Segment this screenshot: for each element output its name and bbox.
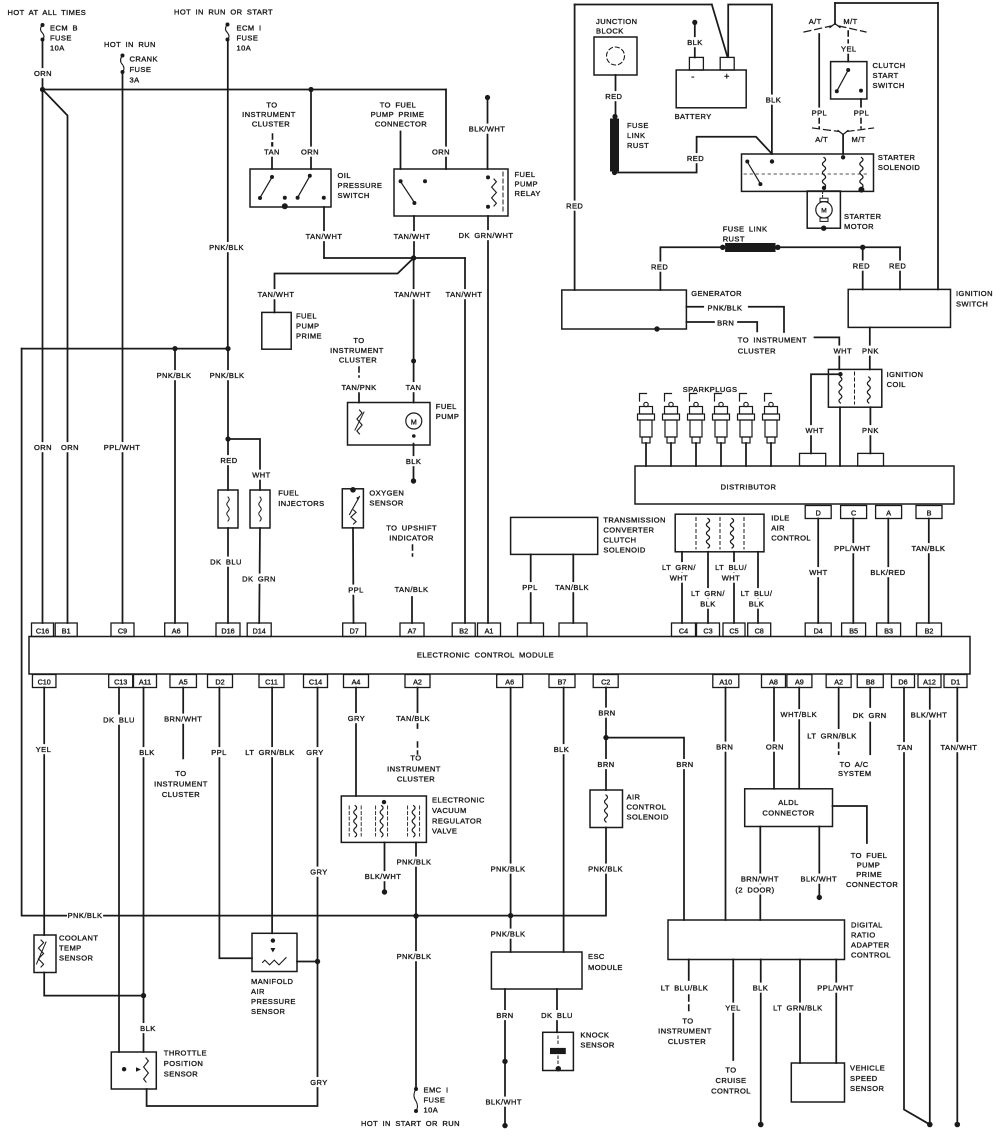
svg-text:RED: RED [687,154,704,163]
svg-text:OIL: OIL [338,171,351,180]
svg-text:ECM I: ECM I [237,24,262,33]
svg-text:CLUSTER: CLUSTER [397,775,435,784]
svg-text:C: C [851,508,856,517]
svg-text:ORN: ORN [432,148,450,157]
svg-text:A8: A8 [769,677,778,686]
svg-text:A2: A2 [413,677,422,686]
svg-text:DK GRN: DK GRN [853,711,887,720]
svg-text:TO: TO [682,1017,693,1026]
svg-text:SPARKPLUGS: SPARKPLUGS [683,385,738,394]
svg-text:BLK/WHT: BLK/WHT [469,125,506,134]
svg-text:SENSOR: SENSOR [59,954,94,963]
svg-text:BLK: BLK [139,748,155,757]
svg-text:C9: C9 [118,626,127,635]
svg-text:DK BLU: DK BLU [541,1011,573,1020]
svg-text:YEL: YEL [841,45,857,54]
svg-text:MOTOR: MOTOR [844,222,874,231]
svg-text:A2: A2 [834,677,843,686]
svg-text:FUSE: FUSE [50,34,72,43]
svg-text:WHT: WHT [252,471,270,480]
svg-text:STARTER: STARTER [878,153,916,162]
svg-text:TO: TO [266,101,277,110]
svg-text:PNK/BLK: PNK/BLK [157,371,192,380]
svg-text:CLUSTER: CLUSTER [162,790,200,799]
svg-text:COIL: COIL [887,380,906,389]
svg-text:TAN/WHT: TAN/WHT [941,743,978,752]
svg-text:RED: RED [566,202,583,211]
svg-text:D1: D1 [951,677,960,686]
svg-text:PRIME: PRIME [296,332,322,341]
svg-text:PNK/BLK: PNK/BLK [397,952,432,961]
svg-text:HOT IN RUN: HOT IN RUN [104,40,156,49]
svg-text:PUMP: PUMP [296,322,319,331]
svg-text:A11: A11 [139,677,151,686]
svg-text:VACUUM: VACUUM [432,806,467,815]
svg-text:TO FUEL: TO FUEL [851,851,888,860]
svg-text:BLK: BLK [700,600,716,609]
svg-text:DISTRIBUTOR: DISTRIBUTOR [721,483,777,492]
svg-text:ORN: ORN [34,443,52,452]
svg-text:CONVERTER: CONVERTER [603,526,654,535]
svg-text:INSTRUMENT: INSTRUMENT [154,780,208,789]
svg-text:KNOCK: KNOCK [580,1030,609,1039]
svg-text:LT GRN/BLK: LT GRN/BLK [773,1004,822,1013]
svg-text:-: - [691,72,695,83]
svg-text:TAN/WHT: TAN/WHT [394,290,431,299]
svg-text:WHT/BLK: WHT/BLK [781,710,818,719]
svg-text:10A: 10A [237,44,252,53]
svg-text:CLUSTER: CLUSTER [668,1037,706,1046]
svg-text:A10: A10 [719,677,732,686]
svg-text:BRN: BRN [676,760,693,769]
svg-text:RELAY: RELAY [515,189,541,198]
svg-text:TO INSTRUMENT: TO INSTRUMENT [738,336,807,345]
svg-text:HOT IN START OR RUN: HOT IN START OR RUN [361,1119,460,1128]
svg-text:TAN/WHT: TAN/WHT [258,290,295,299]
svg-text:PNK/BLK: PNK/BLK [397,858,432,867]
svg-text:GRY: GRY [348,714,365,723]
svg-text:ALDL: ALDL [778,798,799,807]
svg-text:M: M [411,419,417,426]
svg-text:TAN: TAN [264,148,280,157]
svg-text:BATTERY: BATTERY [675,112,712,121]
svg-text:REGULATOR: REGULATOR [432,817,482,826]
svg-text:GENERATOR: GENERATOR [691,289,742,298]
svg-text:PRESSURE: PRESSURE [338,181,383,190]
svg-text:+: + [724,72,730,82]
svg-text:RED: RED [889,262,906,271]
svg-text:A4: A4 [352,677,361,686]
svg-text:WHT: WHT [834,347,852,356]
svg-text:LINK: LINK [627,131,645,140]
svg-text:M/T: M/T [843,17,857,26]
svg-text:FUSE: FUSE [424,1096,446,1105]
svg-text:TO: TO [725,1066,736,1075]
svg-text:FUEL: FUEL [515,170,536,179]
svg-text:BLK: BLK [766,96,782,105]
svg-text:A9: A9 [795,677,804,686]
svg-text:TO FUEL: TO FUEL [380,101,417,110]
svg-text:PRIME: PRIME [856,870,882,879]
svg-text:TAN/BLK: TAN/BLK [396,714,430,723]
svg-text:CLUSTER: CLUSTER [339,356,377,365]
svg-text:BLK: BLK [749,600,765,609]
svg-text:AIR: AIR [251,987,265,996]
svg-text:PPL: PPL [211,748,227,757]
svg-text:HOT IN RUN OR START: HOT IN RUN OR START [174,8,273,17]
svg-text:CRUISE: CRUISE [715,1076,746,1085]
svg-text:PPL: PPL [522,583,538,592]
svg-text:A1: A1 [485,626,494,635]
svg-text:RED: RED [220,456,237,465]
svg-text:RED: RED [651,263,668,272]
svg-text:C8: C8 [755,626,764,635]
svg-text:B1: B1 [62,626,71,635]
svg-text:M/T: M/T [852,135,866,144]
svg-text:BRN: BRN [716,743,733,752]
svg-text:C10: C10 [38,677,51,686]
svg-text:WHT: WHT [809,568,827,577]
svg-text:PNK: PNK [862,347,879,356]
svg-text:TAN/WHT: TAN/WHT [394,232,431,241]
svg-text:A12: A12 [923,677,936,686]
svg-text:C2: C2 [601,677,610,686]
svg-text:PPL: PPL [812,109,828,118]
svg-text:PNK/BLK: PNK/BLK [491,930,526,939]
svg-text:BLK: BLK [687,38,703,47]
svg-text:D14: D14 [253,626,266,635]
svg-text:TAN/WHT: TAN/WHT [446,290,483,299]
svg-text:IGNITION: IGNITION [956,289,993,298]
svg-text:ORN: ORN [61,443,79,452]
svg-text:LT BLU/: LT BLU/ [715,563,747,572]
svg-text:LT GRN/: LT GRN/ [662,563,696,572]
svg-text:ECM B: ECM B [50,24,78,33]
svg-text:RED: RED [853,262,870,271]
svg-text:INSTRUMENT: INSTRUMENT [658,1027,712,1036]
svg-text:FUSE: FUSE [627,121,649,130]
svg-text:A/T: A/T [809,17,822,26]
svg-text:MANIFOLD: MANIFOLD [251,977,293,986]
svg-text:PPL/WHT: PPL/WHT [834,544,871,553]
svg-text:PPL: PPL [854,109,870,118]
svg-text:DIGITAL: DIGITAL [851,921,883,930]
svg-text:ORN: ORN [766,743,784,752]
svg-text:SOLENOID: SOLENOID [878,163,920,172]
svg-text:A: A [886,508,891,517]
svg-text:BLOCK: BLOCK [596,27,624,36]
svg-text:SYSTEM: SYSTEM [838,769,872,778]
svg-text:D: D [816,508,821,517]
svg-text:FUEL: FUEL [278,489,299,498]
svg-text:ELECTRONIC: ELECTRONIC [432,796,485,805]
svg-text:DK BLU: DK BLU [103,716,135,725]
svg-text:BRN: BRN [717,319,734,328]
svg-text:AIR: AIR [627,793,641,802]
svg-text:D2: D2 [215,677,224,686]
svg-text:BRN: BRN [496,1011,513,1020]
svg-text:VEHICLE: VEHICLE [850,1063,885,1072]
svg-text:CONTROL: CONTROL [627,803,667,812]
svg-text:A5: A5 [179,677,188,686]
svg-text:3A: 3A [130,76,140,85]
svg-text:INSTRUMENT: INSTRUMENT [387,765,441,774]
svg-text:DK GRN/WHT: DK GRN/WHT [459,231,514,240]
svg-text:SENSOR: SENSOR [369,499,404,508]
svg-text:TAN/WHT: TAN/WHT [306,232,343,241]
svg-text:SENSOR: SENSOR [251,1007,286,1016]
svg-text:PUMP: PUMP [857,860,880,869]
svg-text:MODULE: MODULE [588,963,623,972]
svg-text:A/T: A/T [815,135,828,144]
svg-text:FUSE: FUSE [130,65,152,74]
svg-text:LT BLU/: LT BLU/ [741,589,773,598]
svg-text:CLUTCH: CLUTCH [603,536,636,545]
svg-text:BRN: BRN [598,709,615,718]
svg-text:CONNECTOR: CONNECTOR [762,809,814,818]
svg-text:BLK: BLK [140,1024,156,1033]
svg-text:SWITCH: SWITCH [956,300,988,309]
svg-text:LT GRN/BLK: LT GRN/BLK [807,732,856,741]
svg-text:PPL/WHT: PPL/WHT [817,984,854,993]
svg-text:PUMP PRIME: PUMP PRIME [371,110,425,119]
svg-text:TAN: TAN [406,383,422,392]
svg-text:TAN/PNK: TAN/PNK [341,383,376,392]
svg-text:STARTER: STARTER [844,212,882,221]
svg-text:INDICATOR: INDICATOR [389,534,434,543]
svg-text:SPEED: SPEED [850,1074,878,1083]
svg-text:RATIO: RATIO [851,931,876,940]
svg-text:THROTTLE: THROTTLE [164,1048,207,1057]
svg-text:C16: C16 [36,626,49,635]
svg-text:GRY: GRY [306,748,323,757]
svg-text:PNK/BLK: PNK/BLK [68,911,103,920]
svg-text:YEL: YEL [36,745,52,754]
svg-text:CLUSTER: CLUSTER [252,120,290,129]
svg-text:C5: C5 [729,626,738,635]
svg-text:CONNECTOR: CONNECTOR [846,880,898,889]
svg-text:SWITCH: SWITCH [338,191,370,200]
svg-text:TEMP: TEMP [59,944,82,953]
svg-text:SOLENOID: SOLENOID [627,813,669,822]
svg-text:A6: A6 [505,677,514,686]
svg-text:FUSE LINK: FUSE LINK [723,225,768,234]
svg-text:BLK/WHT: BLK/WHT [911,711,948,720]
svg-text:TRANSMISSION: TRANSMISSION [603,516,666,525]
svg-text:C11: C11 [265,677,278,686]
svg-text:YEL: YEL [725,1004,741,1013]
svg-text:D4: D4 [814,626,823,635]
svg-text:DK BLU: DK BLU [210,558,242,567]
svg-text:LT GRN/: LT GRN/ [691,589,725,598]
svg-text:OXYGEN: OXYGEN [369,489,404,498]
svg-text:A7: A7 [408,626,417,635]
svg-text:ESC: ESC [588,952,605,961]
svg-text:LT BLU/BLK: LT BLU/BLK [661,984,708,993]
svg-text:SENSOR: SENSOR [580,1041,615,1050]
svg-text:RUST: RUST [723,235,745,244]
svg-text:SWITCH: SWITCH [873,81,905,90]
svg-text:JUNCTION: JUNCTION [596,17,638,26]
svg-text:BLK: BLK [406,457,422,466]
svg-text:10A: 10A [424,1106,439,1115]
svg-text:TAN/BLK: TAN/BLK [395,585,429,594]
svg-text:INSTRUMENT: INSTRUMENT [330,346,384,355]
svg-text:RED: RED [605,92,622,101]
svg-text:PNK/BLK: PNK/BLK [708,304,743,313]
svg-text:PUMP: PUMP [436,412,459,421]
svg-text:CONNECTOR: CONNECTOR [375,120,427,129]
svg-text:PNK/BLK: PNK/BLK [209,243,244,252]
svg-text:INSTRUMENT: INSTRUMENT [242,110,296,119]
svg-text:DK GRN: DK GRN [242,575,276,584]
svg-text:CLUTCH: CLUTCH [873,61,906,70]
svg-text:PNK/BLK: PNK/BLK [588,865,623,874]
svg-text:EMC I: EMC I [424,1086,449,1095]
svg-text:WHT: WHT [805,426,823,435]
svg-text:M: M [821,208,826,215]
svg-text:(2 DOOR): (2 DOOR) [735,885,774,894]
svg-text:VALVE: VALVE [432,827,457,836]
svg-text:CONTROL: CONTROL [771,534,811,543]
svg-text:C3: C3 [703,626,712,635]
svg-text:B: B [927,508,932,517]
svg-text:PUMP: PUMP [515,180,538,189]
svg-text:TO UPSHIFT: TO UPSHIFT [386,524,437,533]
svg-text:BLK/RED: BLK/RED [870,568,905,577]
svg-text:CLUSTER: CLUSTER [738,347,776,356]
svg-text:B2: B2 [925,626,934,635]
svg-text:LT GRN/BLK: LT GRN/BLK [245,748,294,757]
svg-text:B7: B7 [558,677,567,686]
svg-text:SOLENOID: SOLENOID [603,546,645,555]
svg-text:BLK/WHT: BLK/WHT [365,872,402,881]
svg-text:PPL/WHT: PPL/WHT [104,443,141,452]
svg-text:B8: B8 [866,677,875,686]
svg-text:FUEL: FUEL [296,312,317,321]
svg-text:B3: B3 [884,626,893,635]
svg-text:HOT AT ALL TIMES: HOT AT ALL TIMES [8,8,87,17]
svg-text:PRESSURE: PRESSURE [251,997,296,1006]
svg-text:BRN: BRN [597,760,614,769]
svg-text:FUSE: FUSE [237,34,259,43]
svg-text:B2: B2 [459,626,468,635]
svg-text:SENSOR: SENSOR [850,1084,885,1093]
svg-text:CRANK: CRANK [130,55,159,64]
svg-text:A6: A6 [172,626,181,635]
svg-text:TAN/BLK: TAN/BLK [911,544,945,553]
svg-text:B5: B5 [849,626,858,635]
svg-text:PNK: PNK [862,426,879,435]
svg-text:TO: TO [353,336,364,345]
svg-text:D7: D7 [350,626,359,635]
svg-text:START: START [873,71,899,80]
svg-text:TO: TO [410,754,421,763]
svg-text:C4: C4 [679,626,688,635]
svg-text:BLK: BLK [554,745,570,754]
svg-text:D16: D16 [221,626,234,635]
svg-text:ORN: ORN [301,148,319,157]
svg-text:PNK/BLK: PNK/BLK [491,865,526,874]
svg-text:IGNITION: IGNITION [887,370,924,379]
svg-text:WHT: WHT [722,574,740,583]
svg-text:GRY: GRY [310,868,327,877]
svg-text:POSITION: POSITION [164,1059,203,1068]
svg-text:FUEL: FUEL [436,402,457,411]
svg-text:D6: D6 [898,677,907,686]
svg-text:ELECTRONIC CONTROL MODULE: ELECTRONIC CONTROL MODULE [417,651,554,660]
svg-text:WHT: WHT [670,574,688,583]
svg-text:BLK/WHT: BLK/WHT [801,875,838,884]
svg-text:BLK: BLK [753,984,769,993]
svg-text:BRN/WHT: BRN/WHT [164,715,202,724]
svg-text:TAN: TAN [897,743,913,752]
svg-text:TO A/C: TO A/C [840,760,869,769]
svg-text:CONTROL: CONTROL [711,1087,751,1096]
svg-text:PNK/BLK: PNK/BLK [210,371,245,380]
svg-text:RUST: RUST [627,141,649,150]
svg-text:TO: TO [175,769,186,778]
svg-text:10A: 10A [50,44,65,53]
svg-text:AIR: AIR [771,524,785,533]
svg-text:TAN/BLK: TAN/BLK [555,583,589,592]
svg-text:INJECTORS: INJECTORS [278,499,324,508]
svg-text:ORN: ORN [34,69,52,78]
svg-text:SENSOR: SENSOR [164,1069,199,1078]
svg-text:COOLANT: COOLANT [59,934,98,943]
svg-text:IDLE: IDLE [771,514,789,523]
svg-text:GRY: GRY [310,1078,327,1087]
svg-text:BLK/WHT: BLK/WHT [485,1098,522,1107]
svg-text:ADAPTER: ADAPTER [851,941,890,950]
svg-text:CONTROL: CONTROL [851,951,891,960]
svg-text:PPL: PPL [348,586,364,595]
svg-text:BRN/WHT: BRN/WHT [741,875,779,884]
svg-text:C13: C13 [114,677,127,686]
svg-text:C14: C14 [309,677,322,686]
